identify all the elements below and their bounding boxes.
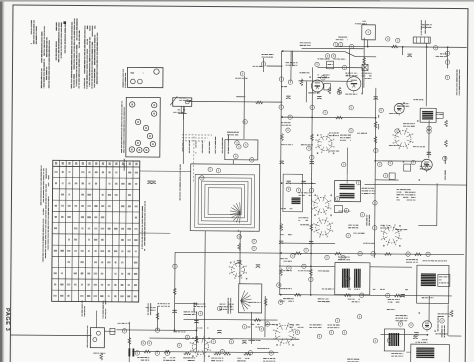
tuner section box [225, 140, 258, 160]
dashed shield line [310, 152, 313, 252]
part reference bubble 28 [346, 233, 350, 237]
component value label [183, 357, 195, 361]
tube V11 (dashed) [229, 261, 247, 280]
component box small [362, 64, 368, 70]
resistor R3 [338, 87, 341, 94]
wire [262, 58, 264, 72]
wire [380, 333, 427, 335]
component value label [340, 135, 351, 141]
component value label [363, 243, 375, 244]
component value label [265, 324, 277, 325]
part reference bubble 26 [286, 187, 290, 191]
part reference bubble 34 [295, 330, 299, 334]
wire [239, 231, 241, 284]
component value label [334, 59, 346, 60]
capacitor C19 [401, 295, 405, 298]
oscillator coil L2 [420, 108, 443, 122]
resistor R37 [144, 350, 151, 353]
part reference bubble 23 [208, 167, 212, 171]
part reference bubble 64 [344, 208, 348, 212]
tube V3 oscillator section [394, 103, 404, 115]
rotated label text [182, 142, 183, 151]
component value label [117, 323, 129, 324]
part reference bubble 44 [165, 351, 169, 355]
resistor R9 [300, 79, 303, 86]
part reference bubble 20 [235, 141, 239, 145]
part reference bubble 58 [310, 105, 314, 109]
part reference bubble 8 [331, 54, 335, 58]
part reference bubble 71 [242, 325, 246, 329]
component value label [158, 303, 170, 307]
part reference bubble 78 [411, 160, 415, 164]
wire [367, 40, 369, 47]
resistor R34 [335, 252, 342, 255]
tube V7 (dashed) [392, 128, 413, 149]
part reference bubble 99 [173, 264, 177, 268]
component value label [281, 86, 287, 87]
IF input transformer [283, 174, 303, 212]
component value label [163, 357, 175, 361]
part reference bubble 24 [216, 168, 220, 172]
component value label [280, 270, 292, 271]
component value label [405, 289, 408, 290]
capacitor C22 [301, 181, 305, 184]
part reference bubble 98 [341, 255, 345, 259]
part reference bubble 55 [198, 311, 202, 315]
wire [280, 51, 282, 294]
component value label [298, 270, 310, 271]
component value label [422, 297, 434, 298]
component value label [173, 109, 185, 113]
resistor R4 [374, 121, 377, 128]
component value label [263, 358, 275, 362]
component value label [329, 150, 339, 151]
resistor box R5b [324, 83, 331, 90]
capacitor C7 [280, 161, 284, 164]
resistor R39 [184, 352, 191, 355]
part reference bubble 76 [388, 161, 392, 165]
rotated label text [202, 140, 203, 153]
junction [174, 329, 176, 331]
wire [363, 38, 365, 88]
wire [286, 182, 316, 184]
wire [365, 183, 467, 186]
component value label [280, 258, 292, 262]
component value label [301, 144, 313, 145]
wire [318, 66, 363, 68]
component value label [436, 53, 448, 57]
tube V6 audio output (dashed) [315, 134, 334, 154]
component value label [403, 123, 415, 127]
resistor R41 [244, 352, 251, 355]
resistor R2 [328, 87, 331, 94]
component value label [286, 62, 298, 66]
pin number marks [192, 73, 438, 359]
component value label [308, 92, 319, 93]
component value label [338, 211, 350, 212]
part reference bubble 52 [433, 46, 437, 50]
part reference bubble 88 [265, 322, 269, 326]
rotated label text [441, 325, 445, 337]
tube V2 IF amplifier [347, 77, 361, 93]
wire jog [345, 52, 356, 57]
component value label [348, 225, 358, 229]
capacitor C21 [286, 181, 290, 184]
schematic general notes text (rotated) [30, 18, 98, 89]
component value label [317, 74, 329, 78]
part reference bubble 93 [349, 105, 353, 109]
junction [402, 46, 404, 48]
component value label [237, 358, 249, 362]
part reference bubble 39 [335, 318, 339, 322]
junction [311, 116, 313, 118]
rotated label text [194, 302, 198, 313]
part reference bubble 15 [310, 155, 314, 159]
component value label [388, 299, 400, 303]
component value label [235, 78, 247, 79]
wire [428, 120, 430, 158]
resistor R15 [195, 336, 198, 343]
part reference bubble 91 [356, 181, 360, 185]
component value label [196, 327, 208, 328]
component value label [299, 192, 311, 196]
rotated label text [189, 140, 190, 153]
part reference bubble 94 [323, 110, 327, 114]
part reference bubble 102 [307, 146, 311, 150]
component value label [300, 42, 311, 46]
rotated label text [124, 159, 125, 171]
part reference bubble 22 [252, 246, 256, 250]
part reference bubble 33 [346, 276, 350, 280]
capacitor C12 [172, 310, 176, 313]
wire [375, 88, 376, 258]
component value label [220, 304, 234, 310]
resistor R16 [238, 243, 241, 250]
component value label [397, 103, 409, 107]
rotated label text [179, 164, 180, 200]
part reference bubble 40 [122, 329, 126, 333]
component value label [146, 307, 156, 311]
component value label [329, 132, 339, 136]
component value label [93, 353, 105, 354]
svg-text:PAGE 3: PAGE 3 [4, 308, 10, 331]
part reference bubble 41 [141, 341, 145, 345]
wire [243, 76, 245, 139]
component value label [396, 189, 415, 201]
junction [311, 182, 313, 184]
component value label [309, 324, 321, 328]
component value label [280, 208, 292, 209]
part reference bubble 45 [177, 343, 181, 347]
part reference bubble 89 [248, 351, 252, 355]
resistor R18 [279, 269, 282, 276]
junction [447, 46, 449, 48]
part reference bubble 50 [445, 51, 449, 55]
wire [173, 252, 176, 330]
component value label [289, 324, 303, 328]
component value label [280, 298, 294, 302]
resistor R14 [173, 288, 176, 295]
part reference bubble 32 [277, 283, 281, 287]
wire [305, 81, 307, 102]
capacitor C14 [414, 333, 418, 336]
component value label [318, 270, 329, 271]
wire [292, 51, 294, 66]
capacitor C1 [407, 54, 411, 57]
component value label [345, 94, 357, 95]
power transformer T2 [417, 260, 450, 303]
part reference bubble 68 [259, 327, 263, 331]
component value label [362, 188, 376, 194]
resistor R22 [156, 313, 159, 320]
part reference bubble 73 [427, 126, 431, 130]
part reference bubble 35 [317, 334, 321, 338]
part reference bubble 54 [349, 44, 353, 48]
wire [279, 265, 335, 267]
resistor R12 [280, 224, 283, 231]
component value label [395, 229, 407, 230]
part reference bubble 38 [357, 315, 361, 319]
component value label [406, 259, 418, 263]
wire [204, 231, 207, 320]
tube voltage chart table [52, 160, 140, 302]
resistor R33 [295, 252, 302, 255]
component value label [247, 324, 259, 328]
component value label [249, 302, 261, 303]
capacitor C18 [194, 320, 198, 323]
capacitor C17 [217, 331, 221, 334]
resistor R36 [415, 253, 422, 256]
component value label [318, 58, 330, 59]
component value label [298, 217, 308, 221]
resistor R7 [444, 140, 447, 147]
part reference bubble 57 [279, 105, 283, 109]
part reference bubble 21 [252, 239, 256, 243]
wire [156, 306, 158, 330]
component value label [299, 72, 309, 73]
wire [290, 51, 292, 81]
junction [310, 294, 312, 296]
rotated label text [209, 142, 210, 154]
part reference bubble 37 [342, 330, 346, 334]
junction [196, 330, 198, 332]
part reference bubble 75 [374, 148, 378, 152]
junction [310, 265, 312, 267]
junction [374, 160, 376, 162]
IF transformer T1 [334, 175, 360, 202]
capacitor C2 [147, 181, 151, 184]
resistor R10 [363, 57, 366, 64]
resistor R19 [309, 269, 312, 276]
rotated label text [215, 137, 216, 154]
component value label [281, 122, 291, 126]
part reference bubble 43 [155, 351, 159, 355]
component value label [348, 289, 360, 290]
part reference bubble 61 [406, 252, 410, 256]
capacitor C5 [317, 96, 321, 99]
wire [175, 252, 464, 254]
scan left dark edge [0, 0, 4, 362]
wire [282, 116, 376, 119]
component value label [179, 97, 191, 101]
part reference bubble 84 [409, 323, 413, 327]
part reference bubble 66 [291, 254, 295, 258]
component value label [391, 353, 403, 357]
capacitor C9 [427, 152, 431, 155]
part reference bubble 27 [296, 188, 300, 192]
part reference bubble 101 [243, 120, 247, 124]
dashed callout lines [182, 135, 212, 141]
tube V9 (dashed) [313, 217, 333, 237]
component value label [318, 298, 330, 302]
part reference bubble 65 [304, 248, 308, 252]
resistor R30 [256, 101, 263, 104]
wire [279, 295, 452, 296]
part reference bubble 16 [342, 162, 346, 166]
component value label [262, 54, 274, 58]
rotated label text [148, 303, 152, 315]
component value label [137, 357, 149, 361]
wire [282, 50, 345, 52]
part reference bubble 56 [217, 306, 221, 310]
part reference bubble 49 [229, 340, 233, 344]
wire [186, 100, 282, 103]
rotated label text [445, 156, 446, 180]
part reference bubble 10 [342, 65, 346, 69]
tube placement chassis layout box [121, 97, 160, 157]
component value label [194, 303, 206, 307]
tube V12 audio amp (dashed) [273, 322, 296, 345]
part reference bubble 70 [135, 351, 139, 355]
wire [336, 46, 467, 47]
component value label [396, 315, 408, 321]
component value label [413, 99, 423, 100]
capacitor C20 [256, 265, 260, 268]
part reference bubble 1 [386, 37, 390, 41]
component value label [322, 288, 334, 289]
capacitor C10 [279, 241, 283, 244]
junction [280, 252, 282, 254]
part reference bubble 97 [325, 255, 329, 259]
wire [236, 96, 245, 98]
resistor R42 [294, 293, 301, 296]
resistor R45 [254, 319, 261, 322]
component value label [211, 358, 223, 362]
component value label [361, 73, 371, 79]
resistor box R5a [327, 61, 334, 69]
wire [128, 322, 130, 362]
part reference bubble 18 [237, 145, 241, 149]
wire [448, 335, 461, 337]
part reference bubble 105 [427, 129, 431, 133]
tube V13 output (dashed) [190, 336, 211, 357]
resistor R20 [264, 298, 267, 305]
part reference bubble 90 [269, 351, 273, 355]
component value label [280, 234, 292, 235]
part reference bubble 47 [211, 339, 215, 343]
component value label [345, 73, 357, 77]
junction [426, 46, 428, 48]
component value label [353, 233, 365, 234]
tube V8 (dashed) [311, 195, 331, 215]
part reference bubble 19 [250, 158, 254, 162]
part reference bubble 74 [443, 156, 447, 160]
wire [418, 225, 436, 227]
wire [280, 242, 335, 244]
component ref [378, 162, 382, 166]
part reference bubble 86 [387, 338, 391, 342]
wire [116, 329, 196, 332]
capacitor C8 [310, 161, 314, 164]
wire [149, 338, 299, 339]
part reference bubble 13 [338, 42, 342, 46]
part reference bubble 72 [379, 108, 383, 112]
resistor R35 [385, 253, 392, 256]
wire [10, 334, 91, 337]
rotated label text [456, 69, 460, 95]
resistor R8 [281, 134, 284, 141]
resistor R1 [100, 353, 103, 360]
part reference bubble 60 [371, 252, 375, 256]
part reference bubble 2 [396, 38, 400, 42]
component value label [420, 163, 431, 169]
component value label [380, 225, 390, 229]
resistor R38 [164, 350, 171, 353]
part reference bubble 77 [383, 173, 387, 177]
part reference bubble 11 [321, 76, 325, 80]
component value label [227, 132, 239, 136]
part reference bubble 63 [335, 197, 339, 201]
capacitor C6 [374, 97, 378, 100]
rotated label text [82, 301, 86, 317]
wire [264, 296, 266, 337]
part reference bubble 80 [373, 226, 377, 230]
part reference bubble 67 [278, 300, 282, 304]
wire [203, 320, 205, 362]
part reference bubble 96 [309, 188, 313, 192]
part reference bubble 17 [288, 115, 292, 119]
part reference bubble 51 [445, 60, 449, 64]
part reference bubble 9 [315, 62, 319, 66]
component value label [300, 224, 312, 225]
junction [310, 252, 312, 254]
part reference bubble 5 [279, 77, 283, 81]
component value label [357, 133, 367, 134]
component value label [389, 145, 400, 146]
capacitor C3 [151, 181, 155, 184]
component value label [327, 324, 339, 328]
resistor box R42 [334, 206, 342, 213]
component value label [413, 146, 425, 147]
junction [427, 334, 429, 336]
component value label [257, 348, 269, 349]
component value label [347, 359, 359, 362]
tube V5 rectifier [422, 321, 431, 332]
wire [447, 304, 449, 335]
wire [311, 67, 313, 294]
oscillator coil assembly [239, 284, 262, 313]
wire [298, 80, 352, 82]
component value label [173, 331, 185, 332]
part reference bubble 69 [155, 328, 159, 332]
part reference bubble 12 [288, 80, 292, 84]
resistor R44 [394, 294, 401, 297]
junction [375, 117, 377, 119]
wire [175, 302, 197, 304]
page number label PAGE 3 [4, 308, 10, 331]
part reference bubble 31 [309, 277, 313, 281]
tuner shield box [190, 164, 260, 231]
